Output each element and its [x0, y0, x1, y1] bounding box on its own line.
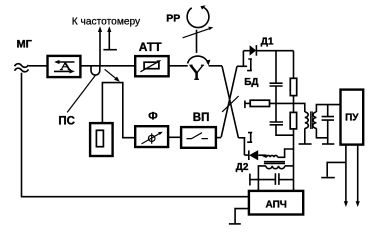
- svg-text:БД: БД: [244, 77, 258, 88]
- svg-text:РР: РР: [166, 13, 180, 25]
- svg-text:МГ: МГ: [17, 38, 33, 50]
- svg-text:Д2: Д2: [236, 162, 249, 173]
- svg-text:ВП: ВП: [193, 112, 210, 124]
- svg-text:Д1: Д1: [261, 36, 274, 47]
- svg-text:ПС: ПС: [58, 115, 75, 127]
- svg-text:АТТ: АТТ: [139, 40, 162, 54]
- svg-text:К частотомеру: К частотомеру: [72, 16, 141, 27]
- svg-text:ПУ: ПУ: [345, 113, 359, 124]
- svg-text:АПЧ: АПЧ: [266, 199, 287, 210]
- svg-text:Ф: Ф: [148, 110, 157, 122]
